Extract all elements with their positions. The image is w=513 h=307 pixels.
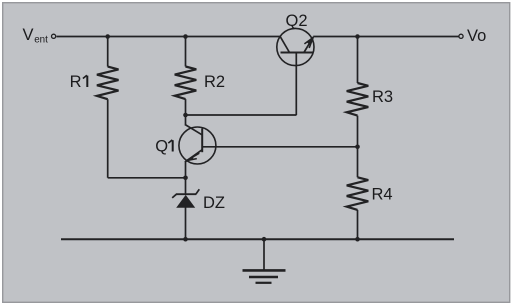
node dot top R1 <box>105 34 110 39</box>
node dot top R2 <box>183 34 188 39</box>
svg-text:R2: R2 <box>204 73 225 91</box>
wire Vent to Q2 collector (top rail left) <box>57 36 281 38</box>
wire DZ to ground rail <box>185 208 187 240</box>
resistor R4 <box>347 177 369 210</box>
zener diode DZ <box>172 189 199 208</box>
svg-text:Vo: Vo <box>467 27 486 45</box>
resistor R1 <box>97 67 119 100</box>
wire R3 top lead <box>357 37 359 84</box>
svg-text:R4: R4 <box>372 186 393 204</box>
wire ground rail <box>61 238 454 240</box>
wire Q2 emitter to Vo (top rail right) <box>313 36 458 38</box>
node dot top R3 <box>355 34 360 39</box>
svg-text:R: R <box>70 73 82 91</box>
wire R1 top lead <box>107 37 109 67</box>
svg-text:DZ: DZ <box>203 194 225 212</box>
wire Q1 emitter to DZ <box>185 161 187 194</box>
resistor R2 <box>175 67 197 100</box>
svg-text:R3: R3 <box>372 88 393 106</box>
node dot DZ top <box>183 176 188 181</box>
resistor R3 <box>347 83 369 116</box>
svg-text:ent: ent <box>34 34 48 45</box>
svg-text:V: V <box>23 26 34 44</box>
transistor Q1 <box>179 125 216 165</box>
wire R1 bottom lead <box>107 99 109 178</box>
node dot rail R4 <box>355 237 360 242</box>
wire R2 top lead <box>185 37 187 67</box>
terminal Vo <box>459 34 463 38</box>
wire R4 bottom lead <box>357 210 359 239</box>
svg-text:Q2: Q2 <box>286 12 308 30</box>
wire R1 bottom to DZ node <box>108 177 186 179</box>
node dot R2 bottom <box>183 113 188 118</box>
wire Q1 collector lead <box>185 115 187 126</box>
node dot divider <box>355 145 360 150</box>
node dot rail ground <box>262 237 267 242</box>
ground <box>243 239 286 283</box>
wire Q2 base vertical <box>295 53 297 116</box>
wire Q1 base to divider node <box>203 146 358 148</box>
wire R3 bottom lead <box>357 116 359 147</box>
wire R4 top lead <box>357 147 359 178</box>
svg-text:Q: Q <box>155 138 168 156</box>
node dot rail DZ <box>183 237 188 242</box>
wire R2 bottom lead <box>185 99 187 115</box>
wire node to Q2 base horizontal <box>186 114 297 116</box>
transistor Q2 <box>277 28 314 65</box>
terminal Vent <box>52 34 56 38</box>
